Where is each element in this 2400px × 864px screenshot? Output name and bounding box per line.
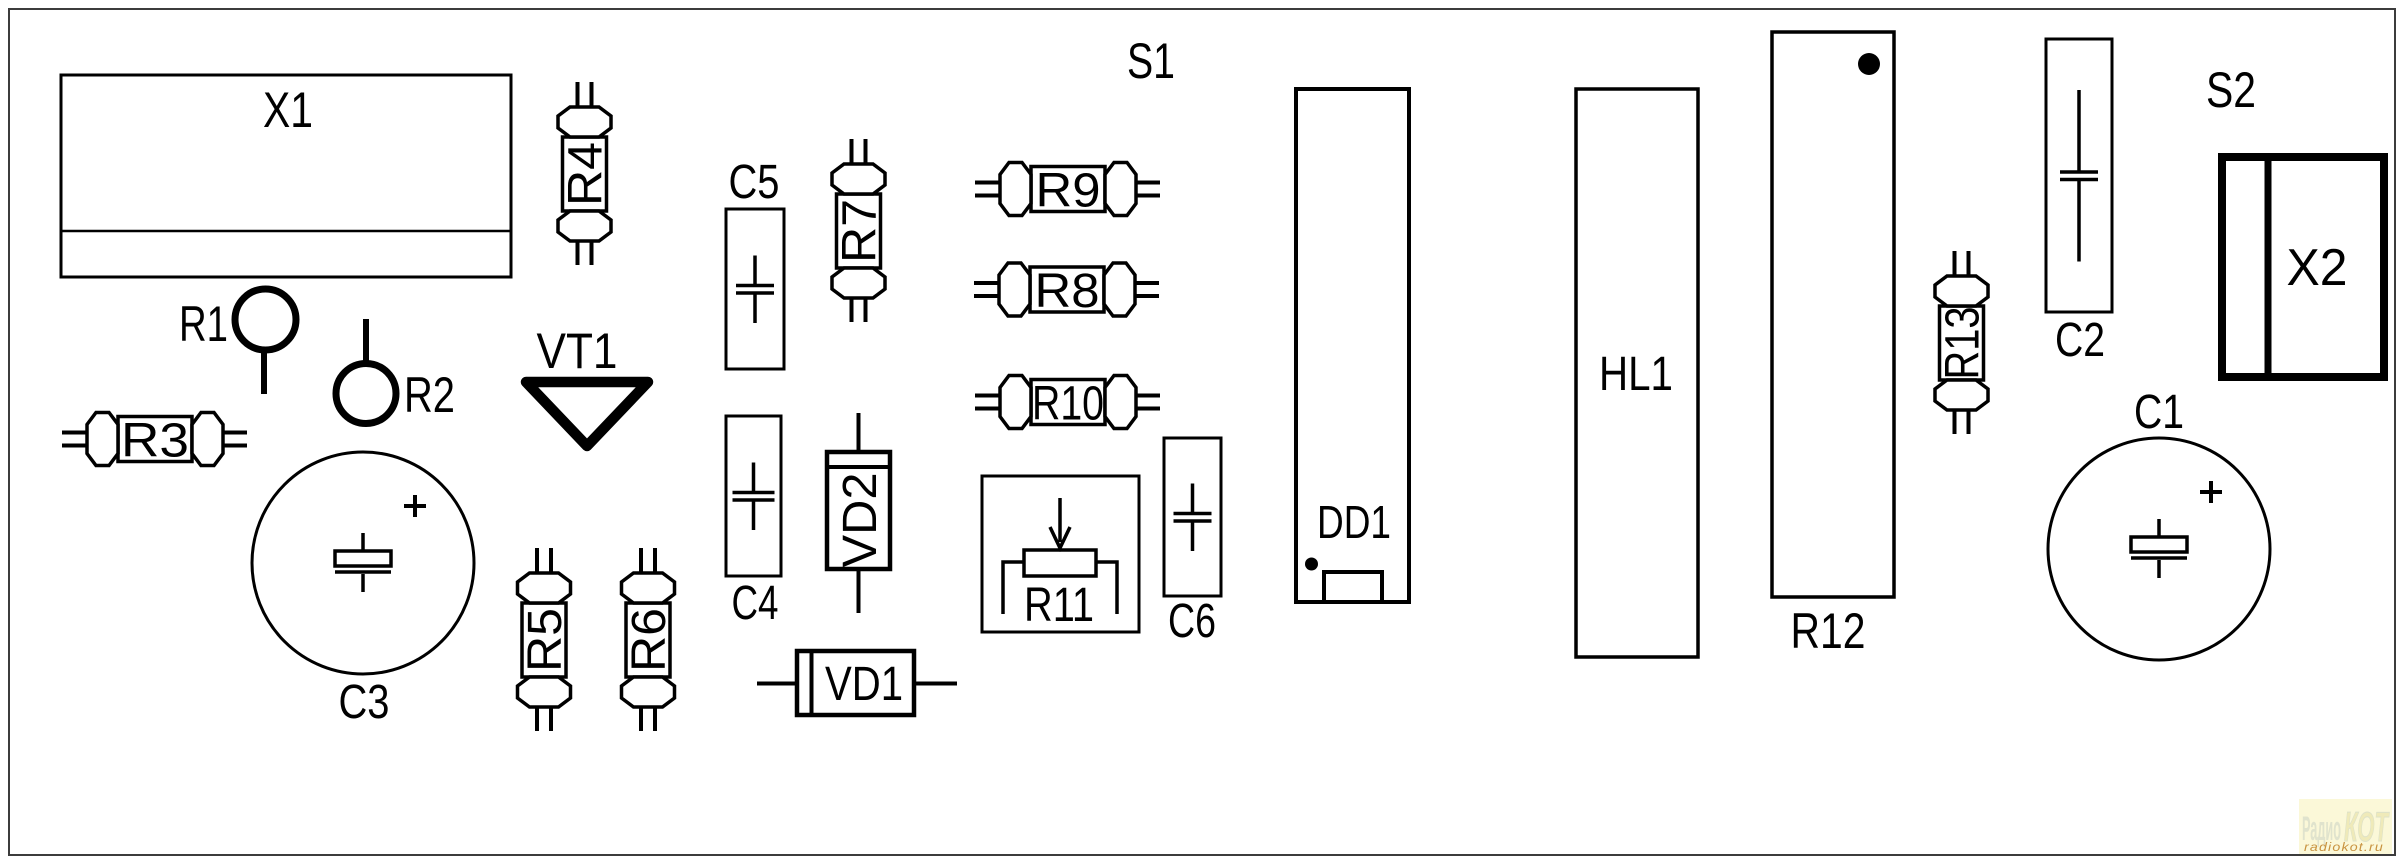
capacitor C2 [2046,39,2112,367]
svg-text:R11: R11 [1024,579,1094,632]
resistor R7 [832,139,887,322]
capacitor C6 [1164,438,1221,648]
svg-text:R1: R1 [179,296,228,352]
connector X1 [61,75,511,277]
resistor R8 [974,263,1159,318]
diode VD1 [757,651,957,715]
svg-text:C3: C3 [339,676,390,729]
electrolytic capacitor C1 [2048,386,2270,660]
resistor R6 [622,548,677,731]
trimmer R11 [982,476,1139,632]
jumper pad R1 [179,289,296,394]
svg-text:R3: R3 [121,415,189,468]
svg-text:R4: R4 [560,142,613,206]
svg-text:X2: X2 [2287,239,2348,297]
svg-text:S2: S2 [2206,62,2256,118]
resistor R5 [518,548,573,731]
svg-text:C1: C1 [2134,386,2184,439]
svg-text:C5: C5 [729,156,780,209]
svg-text:DD1: DD1 [1317,496,1391,548]
connector X2 [2222,157,2384,377]
svg-text:R5: R5 [519,608,572,672]
IC DD1 [1296,89,1409,602]
svg-text:C4: C4 [732,577,779,630]
svg-text:R6: R6 [623,608,676,672]
photoresistor R12 [1772,32,1894,659]
svg-text:VD1: VD1 [825,658,903,711]
svg-text:R9: R9 [1036,165,1101,218]
svg-text:R10: R10 [1032,378,1104,431]
resistor R9 [975,163,1160,218]
svg-text:X1: X1 [263,82,313,138]
diode VD2 [827,413,890,613]
resistor R10 [975,376,1160,431]
capacitor C4 [726,416,781,630]
svg-text:R2: R2 [404,367,455,423]
svg-text:R7: R7 [834,199,887,263]
jumper pad R2 [336,319,455,424]
watermark radiokot [2299,799,2392,854]
svg-text:C6: C6 [1168,595,1216,648]
svg-text:C2: C2 [2055,314,2105,367]
electrolytic capacitor C3 [252,452,474,729]
svg-text:VD2: VD2 [834,473,887,568]
svg-text:R12: R12 [1791,603,1866,659]
resistor R4 [558,82,613,265]
svg-text:VT1: VT1 [537,323,618,379]
svg-text:HL1: HL1 [1599,348,1673,401]
display HL1 [1576,89,1698,657]
transistor VT1 [526,323,648,446]
svg-text:R13: R13 [1937,307,1990,380]
svg-text:radiokot.ru: radiokot.ru [2304,840,2384,854]
resistor R3 [62,413,247,468]
capacitor C5 [726,156,784,369]
svg-text:S1: S1 [1127,33,1175,89]
resistor R13 [1935,251,1990,434]
svg-text:R8: R8 [1035,265,1100,318]
